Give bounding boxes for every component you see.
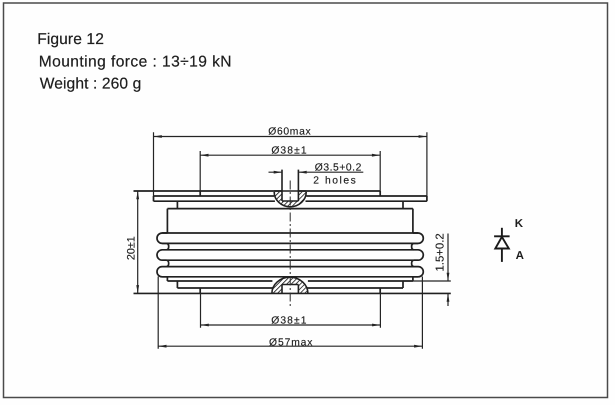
dia57 extension lines [158, 277, 422, 349]
dia60 extension lines [154, 132, 427, 196]
dia38 bottom extension lines [201, 293, 381, 327]
diode D1 triangle [495, 237, 509, 249]
bottom gas hole walls [282, 285, 298, 294]
corrugation ring edge lines [162, 233, 418, 277]
dia38 top dimension line [200, 154, 380, 156]
dia38 bottom dimension line [201, 324, 381, 326]
svg-text:Weight : 260 g: Weight : 260 g [40, 76, 142, 93]
dia57 dimension line [158, 345, 422, 347]
svg-text:1.5+0.2: 1.5+0.2 [434, 233, 446, 271]
svg-text:Ø57max: Ø57max [269, 337, 313, 348]
boss top edge across hole [274, 190, 306, 192]
lip 1.5 dimension line segments [447, 234, 449, 307]
top center hole bowl hatched section [274, 192, 306, 207]
svg-text:Mounting force : 13÷19 kN: Mounting force : 13÷19 kN [39, 53, 232, 70]
svg-text:Ø38±1: Ø38±1 [271, 146, 307, 157]
dia38 top arrowheads [200, 154, 208, 157]
dia38 top extension lines [200, 151, 380, 191]
svg-text:Ø3.5+0.2: Ø3.5+0.2 [315, 163, 362, 174]
dia60 dimension line [154, 136, 427, 138]
upper body section [167, 209, 413, 233]
top flange plate [154, 196, 427, 201]
svg-text:Ø60max: Ø60max [268, 126, 311, 137]
diode D1 anode lead [501, 249, 503, 262]
vertical centerline [289, 181, 291, 308]
svg-text:A: A [516, 250, 524, 262]
svg-text:Figure 12: Figure 12 [37, 31, 104, 48]
bottom center dome hatched section [272, 277, 308, 293]
svg-text:20±1: 20±1 [125, 236, 137, 260]
dia57 arrowheads [158, 345, 166, 348]
bottom step B and pole plate [177, 288, 403, 293]
dia3.5 arrowheads [274, 171, 282, 174]
lip 1.5 arrowheads [447, 273, 450, 281]
bottom pole face line [134, 292, 451, 294]
svg-text:K: K [515, 218, 524, 230]
svg-text:Ø38±1: Ø38±1 [271, 315, 307, 326]
height 20 dimension line [137, 191, 139, 293]
dia38 bottom arrowheads [201, 324, 209, 327]
neck below flange [177, 201, 403, 208]
bottom step A [167, 277, 413, 288]
dia3.5 dimension lines [269, 171, 364, 173]
height 20 arrowheads [136, 191, 139, 199]
corrugated ceramic left profile [157, 233, 169, 277]
svg-text:2 holes: 2 holes [313, 175, 357, 186]
top pole boss face [134, 191, 381, 196]
lip 1.5 extension line [403, 280, 451, 282]
top gas hole walls [282, 170, 298, 201]
corrugated ceramic right profile [412, 233, 424, 277]
dia60 arrowheads [154, 135, 162, 138]
diode D1 cathode lead [501, 228, 503, 237]
diode D1 cathode bar [494, 235, 510, 237]
